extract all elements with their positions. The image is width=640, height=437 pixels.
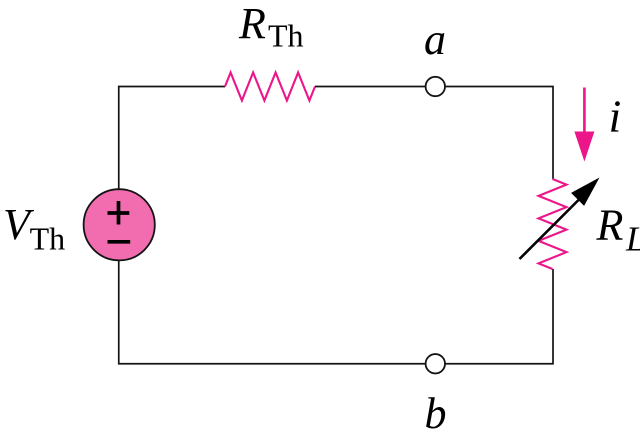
resistor R_L (variable) [539, 179, 567, 269]
svg-text:R: R [238, 0, 266, 48]
plus symbol [108, 201, 130, 225]
svg-text:Th: Th [268, 17, 304, 53]
wire left + bottom + lower-right segments [119, 87, 553, 364]
svg-text:b: b [425, 389, 447, 437]
voltage source V_Th [84, 189, 155, 260]
node b [426, 354, 445, 373]
minus symbol [108, 240, 131, 244]
svg-text:i: i [609, 91, 622, 142]
wire top + upper-right segments [315, 87, 553, 180]
resistor R_Th [225, 73, 315, 101]
svg-text:R: R [596, 201, 624, 250]
svg-text:Th: Th [30, 221, 66, 257]
svg-text:L: L [625, 220, 640, 259]
svg-text:a: a [424, 15, 446, 64]
variable-resistor arrow [520, 178, 600, 260]
node a [426, 77, 445, 96]
current arrow i [574, 88, 594, 162]
